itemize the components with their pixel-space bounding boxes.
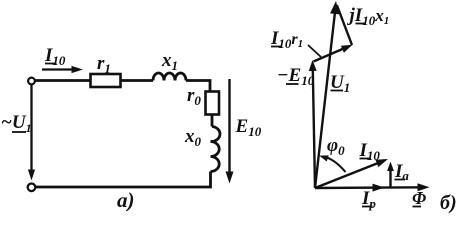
- svg-text:Φ: Φ: [412, 188, 426, 208]
- svg-text:б): б): [440, 192, 457, 213]
- svg-text:а): а): [117, 188, 135, 212]
